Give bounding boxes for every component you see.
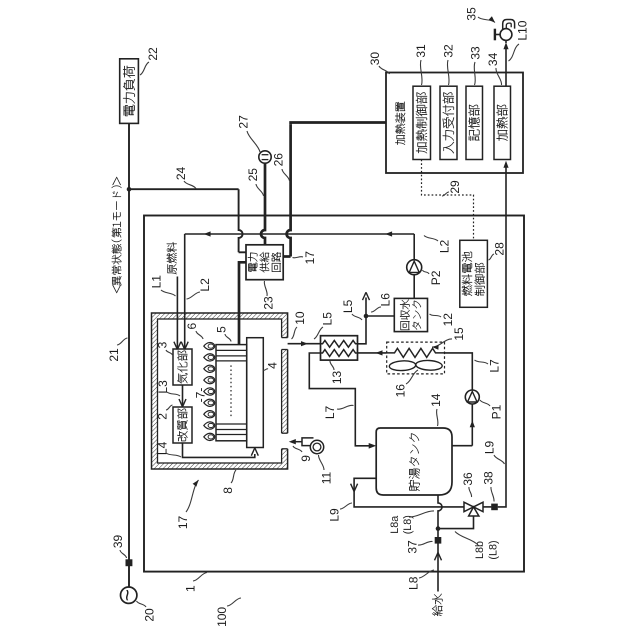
- wire 26 vertical with hop: [287, 124, 291, 256]
- pipe L4 reformer to stack: [183, 443, 255, 457]
- leader 14: [437, 409, 438, 426]
- tank 12 recovered water: [394, 298, 427, 331]
- leader 21: [117, 338, 128, 345]
- svg-text:4: 4: [266, 362, 280, 369]
- leader 29: [442, 192, 449, 196]
- HX13 coil bottom: [321, 350, 358, 357]
- pipe L9 from tank: [354, 478, 465, 507]
- svg-text:39: 39: [111, 535, 125, 549]
- svg-text:13: 13: [330, 371, 344, 385]
- pipe radiator to HX13: [358, 352, 387, 354]
- leader 33: [474, 62, 475, 85]
- blower outlet duct: [302, 438, 314, 446]
- leader L8: [419, 570, 434, 578]
- svg-text:32: 32: [441, 44, 455, 58]
- leader 1: [193, 573, 207, 582]
- tank 14 hot water storage: [376, 428, 452, 495]
- svg-text:16: 16: [393, 384, 407, 398]
- block 2 reformer: [173, 407, 192, 443]
- source 20 AC grid: [121, 587, 137, 603]
- text 加熱部: [496, 105, 507, 141]
- svg-text:15: 15: [452, 327, 466, 341]
- pump P2: [407, 260, 422, 275]
- leader 39: [120, 550, 127, 558]
- arrow L2 into vaporizer: [185, 342, 189, 350]
- svg-text:35: 35: [465, 7, 479, 21]
- svg-text:24: 24: [174, 167, 188, 181]
- svg-text:8: 8: [221, 487, 235, 494]
- label L8b (L8): [474, 540, 499, 559]
- pipe P2 up to L2: [413, 234, 415, 260]
- svg-text:30: 30: [368, 52, 382, 66]
- pipe L3 vaporizer to reformer: [182, 385, 184, 406]
- faucet handle stem: [496, 34, 500, 36]
- block 33 memory part: [466, 86, 483, 159]
- svg-text:100: 100: [215, 607, 229, 627]
- text 原燃料: [167, 242, 177, 274]
- pipe L2 down to vaporizer: [184, 234, 186, 349]
- node junction 21/24: [127, 187, 132, 192]
- leader 3: [166, 350, 173, 355]
- svg-text:P1: P1: [489, 404, 503, 419]
- valve 36 bottom triangle: [469, 507, 479, 516]
- arrow L2 west a: [204, 231, 211, 236]
- block 32 input reception part: [440, 86, 457, 159]
- svg-text:L2: L2: [437, 240, 451, 254]
- svg-text:(L8): (L8): [402, 515, 414, 534]
- svg-text:29: 29: [448, 180, 462, 194]
- block 22 denryoku fuka (electric load): [120, 59, 139, 124]
- text 給水: [432, 594, 442, 616]
- faucet handle bar: [494, 29, 496, 41]
- arrow into reformer: [183, 399, 187, 407]
- text caption <異常状態(第1モード)>: [112, 177, 122, 293]
- leader L8a: [409, 511, 434, 517]
- leader L2 right: [424, 236, 438, 242]
- svg-text:L3: L3: [156, 380, 170, 394]
- stack plate line bottom: [216, 429, 247, 431]
- wire DC stack to box23: [239, 262, 246, 344]
- HX13 coil top: [321, 340, 358, 347]
- pipe L5 HX to tank12: [358, 316, 395, 344]
- blower inner: [313, 443, 321, 451]
- svg-text:L9: L9: [327, 508, 341, 522]
- svg-text:14: 14: [429, 393, 443, 407]
- pump P1 triangle: [468, 391, 478, 402]
- faucet bottom stub: [505, 41, 507, 44]
- leader L9 right: [494, 455, 505, 464]
- node 37: [435, 537, 442, 544]
- arrow L9 into heater 34: [503, 161, 508, 168]
- leader 36: [469, 487, 472, 497]
- wire 24 into box23: [239, 251, 246, 253]
- arrow up into P1: [470, 420, 475, 427]
- label L8a (L8): [389, 515, 414, 534]
- faucet spout inner: [506, 23, 511, 29]
- leader 5: [225, 334, 231, 342]
- svg-text:26: 26: [271, 153, 285, 167]
- arrow L7 into tank14: [369, 443, 377, 449]
- arrow vent up: [363, 292, 367, 300]
- valve 36 left triangle: [464, 502, 474, 512]
- svg-text:L1: L1: [149, 275, 163, 289]
- svg-text:33: 33: [468, 46, 482, 60]
- leader 10: [292, 327, 298, 339]
- leader 16: [406, 370, 418, 384]
- block 30 heating device: [386, 73, 523, 174]
- junction L5/L6: [364, 314, 369, 319]
- faucet body: [500, 29, 512, 41]
- svg-text:5: 5: [215, 326, 229, 333]
- arrow into HX13: [376, 350, 383, 355]
- pipe L8 feed water: [437, 529, 439, 591]
- stack plate line top: [216, 360, 247, 362]
- svg-text:10: 10: [293, 311, 307, 325]
- faucet spout outer: [503, 20, 515, 30]
- leader 100: [227, 598, 241, 606]
- leader L9 left: [340, 503, 352, 509]
- junction L8b/L8a: [436, 526, 441, 531]
- svg-text:27: 27: [237, 115, 251, 129]
- svg-text:-7-: -7-: [194, 388, 208, 403]
- svg-text:6: 6: [185, 323, 199, 330]
- leader 37: [418, 541, 433, 545]
- stack casing 4: [247, 338, 264, 448]
- pump P2 triangle: [409, 261, 419, 272]
- enclosure 1 fuel cell system: [144, 216, 524, 572]
- arrow 9 air into module: [289, 439, 296, 444]
- leader L8b: [455, 532, 478, 546]
- leader 35: [478, 17, 495, 23]
- arrow feed water up: [435, 553, 439, 561]
- pipe radiator to P1: [445, 353, 473, 390]
- leader L6: [371, 307, 381, 312]
- svg-text:3: 3: [155, 341, 169, 348]
- leader 38: [491, 487, 494, 502]
- port cap: [282, 448, 288, 450]
- pipe tank12 to P2: [413, 275, 415, 299]
- block 28 fuel cell control part: [460, 240, 488, 307]
- port cap: [282, 349, 288, 351]
- leader 23: [264, 281, 267, 296]
- text 加熱装置: [395, 102, 405, 145]
- leader 17 circuit: [293, 257, 304, 258]
- svg-text:37: 37: [405, 540, 419, 554]
- leader 28: [489, 254, 495, 260]
- module 8 casing hatched wall: [152, 313, 288, 469]
- block 31 heating control part: [413, 86, 431, 159]
- pipe L8b: [438, 516, 474, 529]
- leader 27: [247, 131, 260, 152]
- blower housing: [310, 440, 323, 453]
- leader L1: [161, 290, 176, 296]
- leader 2: [166, 405, 173, 410]
- block 23 power supply circuit: [246, 245, 283, 280]
- leader 9: [293, 446, 302, 452]
- leader 20: [137, 601, 147, 607]
- leader L2 left: [187, 292, 201, 299]
- pipe P1 down to tank: [471, 404, 473, 446]
- leader L7 left: [337, 405, 354, 409]
- pipe tank right port: [452, 445, 472, 447]
- leader P2: [423, 270, 430, 274]
- svg-text:L8a: L8a: [389, 516, 401, 534]
- leader P1: [480, 400, 490, 406]
- svg-text:L5: L5: [341, 299, 355, 313]
- air line into module: [291, 441, 302, 443]
- svg-text:17: 17: [176, 516, 190, 530]
- pipe L2 horizontal: [185, 233, 415, 235]
- svg-text:25: 25: [246, 168, 260, 182]
- port cap: [282, 337, 288, 339]
- svg-text:20: 20: [143, 608, 157, 622]
- leader 12: [430, 314, 442, 317]
- wire 24 vertical with hop: [239, 189, 243, 252]
- svg-text:L9: L9: [482, 441, 496, 455]
- pipe L1 raw fuel: [176, 277, 178, 349]
- burner 7 flames: [204, 342, 215, 349]
- block 34 heating part: [494, 86, 511, 159]
- fan 16 blades: [389, 360, 416, 371]
- svg-text:L2: L2: [198, 278, 212, 292]
- svg-text:34: 34: [486, 52, 500, 66]
- leader 8: [231, 470, 236, 483]
- svg-text:~: ~: [117, 589, 140, 601]
- stack plate line top: [216, 349, 247, 351]
- leader 26: [282, 169, 290, 181]
- pipe L7 to tank top port: [309, 353, 369, 446]
- wire 26 horizontal to heater: [291, 123, 386, 125]
- svg-text:L8: L8: [406, 576, 420, 590]
- meter 27 mark a: [262, 154, 269, 156]
- svg-text:31: 31: [414, 44, 428, 58]
- leader L4: [166, 453, 181, 457]
- leader 17 module: [186, 480, 199, 512]
- signal wire 29 dotted: [422, 160, 474, 241]
- svg-text:12: 12: [441, 313, 455, 327]
- svg-text:L5: L5: [320, 312, 334, 326]
- arrow L4 into cell stack: [251, 448, 255, 456]
- svg-text:17: 17: [303, 251, 317, 265]
- svg-text:9: 9: [299, 455, 313, 462]
- wire 21 grid line: [128, 123, 130, 587]
- svg-text:23: 23: [261, 296, 275, 310]
- svg-text:38: 38: [482, 471, 496, 485]
- svg-text:28: 28: [493, 242, 507, 256]
- svg-text:(L8): (L8): [488, 540, 500, 559]
- svg-text:36: 36: [461, 472, 475, 486]
- arrow L2 west b: [385, 231, 392, 236]
- leader 22: [140, 62, 149, 75]
- text 気化部: [177, 351, 187, 384]
- cell stack 5: [216, 345, 247, 441]
- svg-text:21: 21: [107, 348, 121, 362]
- leader 24: [184, 181, 196, 189]
- meter 27 mark b: [262, 159, 269, 161]
- leader L5 a: [314, 327, 323, 339]
- wire 25 to wattmeter: [261, 163, 265, 245]
- text 電力負荷: [123, 66, 135, 116]
- port cap: [282, 432, 288, 434]
- port opening for exhaust line 10: [280, 338, 288, 350]
- leader L5 b: [352, 314, 362, 320]
- arrow L1 into vaporizer: [177, 342, 181, 350]
- heat exchanger 13: [321, 336, 358, 360]
- pipe 10 exhaust from module: [288, 343, 321, 345]
- leader 4: [264, 369, 269, 371]
- leader L7 right: [475, 360, 489, 364]
- stack dotted middle: [230, 365, 232, 417]
- leader 30: [379, 66, 390, 74]
- svg-text:L7: L7: [323, 406, 337, 420]
- pipe L8a with hop: [438, 495, 442, 529]
- pipe L9 riser to heater: [498, 166, 506, 507]
- text 燃料電池制御部: [462, 252, 485, 296]
- text 改質部: [177, 409, 187, 441]
- svg-text:P2: P2: [429, 270, 443, 285]
- wire 24 horizontal: [129, 188, 239, 190]
- svg-text:L10: L10: [516, 20, 530, 40]
- svg-text:11: 11: [319, 471, 333, 484]
- radiator 15 dashed box: [387, 342, 445, 374]
- pipe valve to node38: [483, 506, 491, 508]
- svg-text:L6: L6: [378, 293, 392, 307]
- text 回収水タンク: [400, 300, 421, 330]
- text 電力供給回路: [248, 252, 281, 272]
- arrow into faucet: [503, 42, 508, 49]
- leader 31: [420, 60, 422, 85]
- svg-text:L7: L7: [487, 359, 501, 373]
- leader L3: [167, 392, 180, 396]
- stack plate line bottom: [216, 434, 247, 436]
- text 入力受付部: [443, 92, 454, 153]
- leader 13: [330, 361, 334, 370]
- text 記憶部: [468, 105, 479, 141]
- text 加熱制御部: [416, 92, 427, 153]
- node 39 interconnection point: [126, 559, 133, 566]
- leader L10: [509, 44, 520, 61]
- leader 32: [447, 60, 449, 85]
- leader 11: [318, 455, 324, 470]
- pipe heater to faucet: [505, 47, 507, 87]
- svg-text:L4: L4: [155, 441, 169, 455]
- arrow on pipe 10: [301, 341, 308, 346]
- leader 6: [196, 331, 203, 339]
- pump P1: [465, 390, 479, 404]
- stack plate line bottom: [216, 423, 247, 425]
- wire 26 stub into box23: [283, 255, 290, 258]
- radiator coil: [387, 348, 445, 357]
- meter 27 wattmeter: [259, 151, 271, 163]
- svg-text:1: 1: [183, 585, 197, 592]
- text 貯湯タンク: [409, 433, 420, 490]
- stack plate line top: [216, 355, 247, 357]
- svg-text:2: 2: [155, 413, 169, 420]
- leader 25: [256, 184, 264, 196]
- arrow L9 down: [354, 484, 358, 492]
- vent stub L6 arrowed: [365, 298, 367, 317]
- block 3 vaporizer: [173, 349, 192, 385]
- valve 36 right triangle: [474, 502, 484, 512]
- leader 34: [496, 68, 502, 85]
- svg-text:22: 22: [146, 47, 160, 61]
- leader 15: [432, 339, 452, 347]
- node 38: [491, 504, 498, 511]
